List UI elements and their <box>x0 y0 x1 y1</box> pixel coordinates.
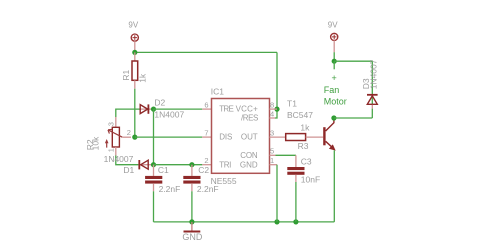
svg-text:10k: 10k <box>91 136 101 150</box>
wire node B to pin 6 TRE <box>154 108 203 110</box>
potentiometer R2 <box>105 127 131 147</box>
wire collector to D3 <box>334 117 372 119</box>
diode D1 <box>139 160 153 169</box>
wire VCC vertical drop to pins 8 and 4 <box>275 52 277 118</box>
svg-text:GND: GND <box>240 160 258 169</box>
supply 9V left symbol <box>131 34 138 52</box>
svg-text:1: 1 <box>107 148 116 152</box>
svg-text:1k: 1k <box>300 123 310 133</box>
svg-text:TRE: TRE <box>219 105 234 114</box>
svg-text:2: 2 <box>204 156 208 165</box>
wire top rail from 9V left to VCC drop <box>135 51 277 53</box>
svg-text:7: 7 <box>204 128 208 137</box>
motor terminal stub <box>333 61 335 69</box>
svg-text:Fan: Fan <box>324 85 340 95</box>
svg-text:C2: C2 <box>198 165 209 175</box>
svg-text:D1: D1 <box>123 165 134 175</box>
wire wiper to pin 7 DIS <box>135 136 203 138</box>
wire pot pin3 up and right to D2 anode <box>115 117 117 127</box>
junction D2 cathode node B <box>151 107 156 112</box>
svg-text:IC1: IC1 <box>211 86 225 96</box>
pin 4 stub <box>270 117 276 119</box>
svg-text:1N4007: 1N4007 <box>154 110 184 120</box>
svg-text:OUT: OUT <box>241 133 258 142</box>
junction collector node <box>331 115 336 120</box>
svg-text:8: 8 <box>270 100 274 109</box>
diode D3 <box>367 95 378 109</box>
op IC1 NE555 box <box>212 99 270 174</box>
svg-text:BC547: BC547 <box>287 110 313 120</box>
svg-text:2.2nF: 2.2nF <box>159 184 181 194</box>
junction D1 anode node B low <box>151 162 156 167</box>
diode D2 <box>140 104 153 113</box>
svg-text:1N4007: 1N4007 <box>104 154 134 164</box>
pin 3 wire to R3 <box>270 136 286 138</box>
pin 1 stub and wire to rail <box>270 164 278 166</box>
wire emitter to rail <box>333 150 335 222</box>
capacitor C2 <box>183 165 200 192</box>
svg-text:GND: GND <box>182 232 203 242</box>
svg-text:/RES: /RES <box>241 114 258 123</box>
svg-text:1k: 1k <box>137 73 147 83</box>
svg-text:NE555: NE555 <box>211 176 237 186</box>
svg-text:Motor: Motor <box>324 96 347 106</box>
wire node B to pin 2 TRI <box>154 164 203 166</box>
svg-text:C1: C1 <box>158 165 169 175</box>
svg-text:10nF: 10nF <box>301 174 320 184</box>
svg-text:1: 1 <box>270 156 274 165</box>
ground symbol GND <box>184 222 201 232</box>
junction rail C3 <box>293 219 298 224</box>
wire 9V right to D3 top <box>334 61 372 104</box>
svg-text:3: 3 <box>106 122 115 126</box>
svg-text:9V: 9V <box>328 20 338 29</box>
junction rail pin1 <box>274 219 279 224</box>
junction 9V right <box>332 59 337 64</box>
wire C1 to ground rail <box>153 191 155 222</box>
pin 2 stub <box>202 164 211 166</box>
wire C2 to ground rail <box>191 191 193 222</box>
svg-text:VCC+: VCC+ <box>236 105 259 114</box>
svg-text:3: 3 <box>270 128 274 137</box>
junction rail C2 <box>189 219 194 224</box>
svg-text:5: 5 <box>270 147 274 156</box>
wire R1 bottom to wiper junction <box>134 89 136 137</box>
pin 6 stub <box>202 108 211 110</box>
junction C2 top <box>189 162 194 167</box>
capacitor C1 <box>145 165 162 192</box>
pin 5 stub and wire to C3 <box>270 154 276 156</box>
transistor Q T1 BC547 <box>323 118 335 150</box>
pin 7 stub <box>202 136 211 138</box>
resistor R3 <box>286 134 306 141</box>
junction pin 8 <box>274 107 279 112</box>
junction top-left 9V <box>132 50 137 55</box>
svg-text:R3: R3 <box>298 141 309 151</box>
supply 9V right symbol <box>331 33 338 61</box>
svg-text:R1: R1 <box>121 69 131 80</box>
junction wiper / R1 <box>132 135 137 140</box>
wire C3 to rail <box>295 182 297 222</box>
svg-text:1N4007: 1N4007 <box>369 59 379 89</box>
pin 8 stub <box>270 108 278 110</box>
svg-text:9V: 9V <box>128 21 138 30</box>
svg-text:D2: D2 <box>154 98 165 108</box>
capacitor C3 <box>287 155 304 182</box>
resistor R1 <box>132 52 138 88</box>
wire pot pin1 down and right to D1 cathode <box>115 147 117 156</box>
svg-text:6: 6 <box>204 100 208 109</box>
svg-text:T1: T1 <box>287 98 297 108</box>
wire node B vertical D2 to D1 <box>153 109 155 165</box>
wire R3 to base <box>306 136 324 138</box>
svg-text:C3: C3 <box>301 156 312 166</box>
svg-text:+: + <box>332 73 337 83</box>
ground rail wire <box>154 221 335 223</box>
svg-text:DIS: DIS <box>219 133 232 142</box>
svg-text:TRI: TRI <box>219 160 231 169</box>
svg-text:2: 2 <box>127 128 131 137</box>
svg-text:4: 4 <box>270 110 274 119</box>
svg-text:CON: CON <box>240 151 258 160</box>
